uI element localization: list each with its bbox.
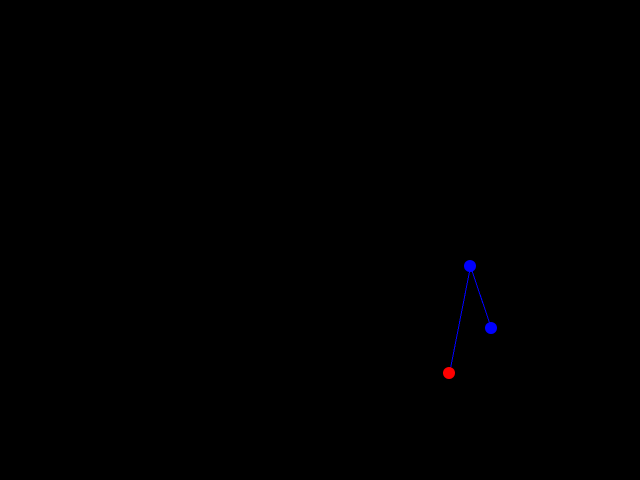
node bob1 (red dot) <box>443 367 455 379</box>
node bob2 (blue dot) <box>485 322 497 334</box>
wire rod1 (pivot to red bob) <box>450 267 471 374</box>
node pivot (blue dot) <box>464 260 476 272</box>
wire rod2 (pivot to blue bob) <box>471 267 492 329</box>
